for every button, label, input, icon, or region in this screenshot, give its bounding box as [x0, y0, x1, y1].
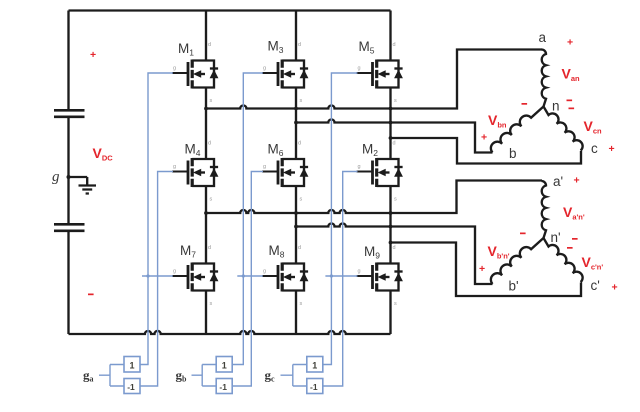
svg-text:d: d	[208, 141, 211, 147]
minus sign Van2	[572, 238, 578, 240]
svg-text:s: s	[394, 98, 397, 104]
wire phase leg 1	[205, 11, 207, 335]
wire phase b2 output	[296, 223, 493, 284]
svg-text:s: s	[394, 197, 397, 203]
svg-text:b': b'	[509, 279, 519, 294]
minus sign Vbn	[522, 103, 528, 105]
svg-text:g: g	[173, 269, 176, 275]
node junction at 296,213.0	[294, 211, 298, 215]
svg-text:d: d	[393, 245, 396, 251]
svg-text:s: s	[300, 301, 303, 307]
node junction at 206,213.0	[204, 211, 208, 215]
inductor winding c	[544, 107, 583, 151]
svg-text:s: s	[210, 98, 213, 104]
wire left DC bus upper segment	[67, 11, 69, 111]
wire gate branch c to bottom row	[325, 275, 357, 277]
wire phase c2 output	[391, 243, 582, 297]
wire left DC bus middle segment	[67, 117, 69, 224]
svg-text:d: d	[298, 141, 301, 147]
wire gate branch b to bottom row	[237, 275, 263, 277]
wire ga fork	[99, 365, 124, 387]
svg-text:+: +	[609, 143, 615, 155]
node junction at 296,108.5	[294, 107, 298, 111]
node junction at 390.5,108.5	[389, 107, 393, 111]
node junction at 296,226.5	[294, 225, 298, 229]
svg-text:n': n'	[551, 230, 561, 245]
svg-text:d: d	[208, 245, 211, 251]
node gate tee a	[146, 274, 149, 277]
svg-text:g: g	[263, 164, 266, 170]
wire gc fork	[281, 365, 307, 387]
svg-text:+: +	[567, 37, 573, 49]
svg-text:d: d	[393, 141, 396, 147]
minus sign Vcn	[569, 108, 575, 110]
transistor M2	[357, 158, 403, 187]
minus sign Vbn2	[520, 233, 526, 235]
svg-text:g: g	[173, 164, 176, 170]
transistor M8	[262, 263, 308, 292]
transistor M9	[357, 263, 403, 292]
wire gate branch a to bottom row	[142, 275, 173, 277]
inductor winding a	[542, 50, 547, 107]
svg-text:d: d	[298, 245, 301, 251]
svg-text:+: +	[612, 282, 618, 294]
svg-text:-1: -1	[219, 382, 227, 392]
svg-text:a': a'	[553, 174, 563, 189]
wire gate signal b direct	[232, 73, 263, 365]
gain block -1 (b)	[216, 379, 232, 394]
node junction at 390.5,242.5	[389, 241, 393, 245]
wire gate signal b inverted	[232, 172, 263, 387]
node junction at 390.5,138.0	[389, 136, 393, 140]
transistor M4	[172, 158, 218, 187]
node gate tee c	[330, 274, 333, 277]
svg-text:s: s	[210, 301, 213, 307]
gain block +1 (a)	[124, 357, 140, 373]
ground	[69, 177, 97, 194]
svg-text:g: g	[358, 66, 361, 72]
svg-text:d: d	[393, 42, 396, 48]
svg-text:s: s	[300, 98, 303, 104]
svg-text:n: n	[552, 99, 560, 114]
wire gb fork	[192, 365, 217, 387]
svg-text:+: +	[574, 175, 580, 187]
node gate tee b	[242, 274, 245, 277]
transistor M3	[262, 60, 308, 89]
transistor M1	[172, 60, 218, 89]
svg-text:1: 1	[222, 361, 227, 371]
wire left DC bus lower segment	[67, 231, 69, 334]
transistor M6	[262, 158, 308, 187]
node junction at 296,122.5	[294, 121, 298, 125]
wire phase leg 3	[389, 11, 391, 335]
wire bottom DC rail	[69, 331, 391, 334]
svg-text:d: d	[208, 42, 211, 48]
svg-text:d: d	[298, 42, 301, 48]
node junction at 390.5,122.5	[389, 121, 393, 125]
svg-text:s: s	[210, 197, 213, 203]
svg-text:c': c'	[591, 278, 600, 293]
gain block +1 (b)	[216, 357, 232, 373]
inductor winding a2	[542, 181, 547, 238]
wire gate signal a inverted	[140, 172, 173, 387]
wire phase c output	[391, 138, 582, 164]
svg-text:1: 1	[130, 361, 135, 371]
svg-text:g: g	[173, 66, 176, 72]
wire phase a output	[206, 50, 542, 109]
svg-text:s: s	[300, 197, 303, 203]
capacitor C2	[54, 224, 85, 231]
wire phase a2 output	[206, 181, 542, 214]
node junction at 390.5,213.0	[389, 211, 393, 215]
svg-text:1: 1	[312, 361, 317, 371]
svg-text:a: a	[539, 30, 547, 45]
minus sign VDC	[88, 294, 94, 296]
minus sign Vcn2	[567, 247, 573, 249]
svg-text:+: +	[90, 49, 96, 61]
inductor winding b2	[491, 238, 544, 284]
transistor M7	[172, 263, 218, 292]
wire gate signal c inverted	[323, 172, 358, 387]
svg-text:g: g	[52, 169, 60, 185]
node junction at 390.5,226.5	[389, 225, 393, 229]
gain block +1 (c)	[307, 357, 323, 373]
svg-text:-1: -1	[310, 382, 318, 392]
inductor winding b	[491, 107, 544, 153]
svg-text:g: g	[263, 269, 266, 275]
wire top DC rail	[69, 9, 391, 11]
svg-text:g: g	[358, 269, 361, 275]
inductor winding c2	[544, 238, 583, 282]
node g junction	[67, 175, 71, 179]
svg-text:g: g	[358, 164, 361, 170]
gain block -1 (c)	[307, 379, 323, 394]
transistor M5	[357, 60, 403, 89]
minus sign Van	[567, 100, 573, 102]
svg-text:s: s	[394, 301, 397, 307]
wire phase b output	[296, 119, 493, 152]
wire gate signal c direct	[323, 73, 358, 365]
node junction at 206,108.5	[204, 107, 208, 111]
wire gate signal a direct	[140, 73, 173, 365]
svg-text:b: b	[509, 146, 517, 161]
wire phase leg 2	[295, 11, 297, 335]
svg-text:c: c	[591, 141, 598, 156]
gain block -1 (a)	[124, 379, 140, 394]
svg-text:g: g	[263, 66, 266, 72]
capacitor C1	[54, 110, 85, 117]
svg-text:+: +	[481, 132, 487, 144]
svg-text:-1: -1	[127, 382, 135, 392]
svg-text:+: +	[479, 263, 485, 275]
